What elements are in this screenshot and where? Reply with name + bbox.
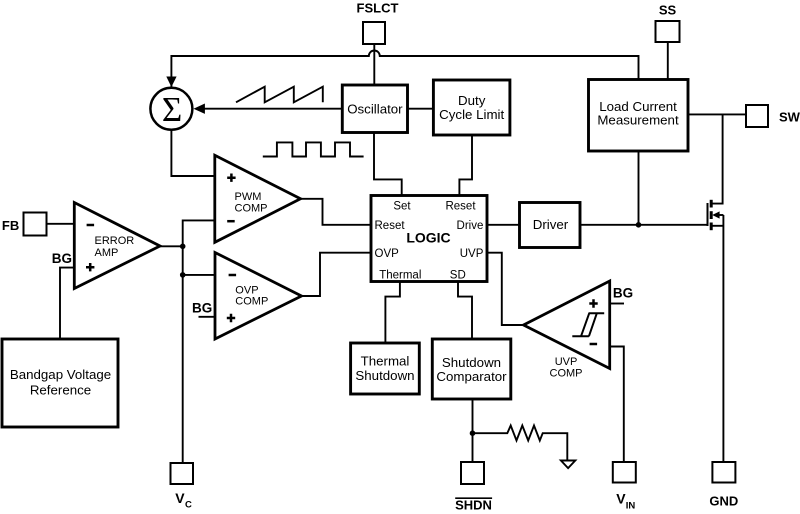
- MOSFET drain riser from SW wire: [711, 114, 723, 203]
- duty cycle limit box: [433, 80, 510, 135]
- svg-text:BG: BG: [52, 251, 72, 266]
- pad SS: [656, 21, 680, 42]
- wire LOGIC SD to shutdown comparator: [458, 282, 472, 340]
- wire sigma output to PWM + input: [171, 130, 214, 176]
- svg-text:Set: Set: [393, 200, 411, 212]
- svg-text:COMP: COMP: [550, 368, 583, 380]
- junction drive node: [636, 222, 642, 228]
- thermal shutdown box: [351, 343, 420, 394]
- svg-text:FB: FB: [2, 218, 19, 233]
- wire FSLCT to oscillator: [373, 44, 375, 85]
- svg-text:Duty: Duty: [458, 93, 486, 108]
- svg-text:BG: BG: [192, 301, 212, 316]
- square waveform: [263, 142, 364, 156]
- wire LOGIC UVP to UVP COMP output: [487, 253, 524, 325]
- svg-text:Shutdown: Shutdown: [355, 368, 414, 383]
- wire OVP COMP output to LOGIC OVP: [302, 253, 372, 296]
- junction OVP branch: [180, 272, 186, 278]
- pad FB: [24, 213, 47, 236]
- transistor Q1 power MOSFET: [708, 200, 724, 230]
- driver box: [520, 203, 581, 248]
- wire UVP + input stub: [610, 303, 624, 305]
- wire shutdown comparator to SHDN pad: [472, 399, 474, 462]
- op-amp ERROR AMP: [74, 203, 160, 289]
- pad GND: [712, 462, 735, 483]
- wire PWM COMP output to LOGIC Reset: [301, 199, 372, 225]
- svg-text:BG: BG: [613, 285, 633, 300]
- svg-text:Drive: Drive: [457, 220, 484, 232]
- logic box: [371, 196, 487, 282]
- resistor to ground: [473, 426, 568, 461]
- svg-text:Thermal: Thermal: [379, 270, 421, 282]
- svg-text:Measurement: Measurement: [597, 113, 679, 128]
- svg-text:Reference: Reference: [30, 383, 91, 398]
- svg-text:Driver: Driver: [533, 217, 569, 232]
- svg-text:V: V: [616, 491, 626, 507]
- svg-text:Reset: Reset: [375, 220, 406, 232]
- junction SHDN node: [470, 430, 476, 436]
- wire LOGIC Drive to driver: [487, 224, 520, 226]
- svg-text:SD: SD: [450, 270, 466, 282]
- wire LCM to SW pad: [688, 113, 746, 115]
- op-amp OVP COMP: [215, 253, 302, 340]
- svg-text:Cycle Limit: Cycle Limit: [439, 107, 504, 122]
- svg-text:SS: SS: [659, 3, 677, 18]
- wire SS to load current measurement: [667, 42, 669, 80]
- oscillator box: [342, 85, 407, 133]
- svg-text:COMP: COMP: [235, 295, 268, 307]
- svg-text:Thermal: Thermal: [361, 353, 410, 368]
- wire VC to OVP - input: [183, 274, 215, 276]
- svg-text:IN: IN: [626, 501, 636, 512]
- wire oscillator output to sigma with arrowhead: [204, 108, 342, 110]
- sawtooth waveform: [236, 87, 323, 103]
- wire BG stub to OVP +: [199, 316, 216, 318]
- wire LOGIC Thermal to thermal shutdown: [385, 282, 400, 344]
- svg-text:UVP: UVP: [460, 248, 484, 260]
- load current measurement box: [589, 80, 689, 152]
- summing node sigma: [150, 88, 192, 130]
- pad SW: [746, 105, 768, 127]
- op-amp PWM COMP: [215, 155, 301, 242]
- wire UVP - input to VIN: [610, 347, 624, 463]
- wire oscillator to duty cycle limit: [408, 108, 434, 110]
- wire oscillator to LOGIC Set: [374, 133, 402, 197]
- wire bandgap to error amp +: [60, 268, 74, 339]
- pad VIN: [613, 462, 636, 483]
- svg-text:COMP: COMP: [235, 202, 268, 214]
- comparator UVP COMP: [524, 281, 610, 369]
- svg-text:Reset: Reset: [445, 200, 476, 212]
- pad FSLCT: [363, 22, 385, 44]
- svg-text:V: V: [175, 490, 185, 506]
- svg-text:C: C: [185, 500, 192, 511]
- arrowhead into sigma top: [166, 77, 176, 88]
- shutdown comparator box: [432, 339, 511, 399]
- svg-text:Comparator: Comparator: [436, 369, 507, 384]
- svg-text:ERROR: ERROR: [95, 235, 135, 247]
- wire duty cycle limit to LOGIC Reset: [459, 135, 472, 196]
- wire LCM bottom to drive node: [638, 151, 640, 225]
- wire FB to error amp: [47, 223, 75, 225]
- node VC vertical line: [183, 220, 215, 463]
- svg-text:Oscillator: Oscillator: [347, 102, 403, 117]
- svg-text:OVP: OVP: [375, 248, 400, 260]
- pad SHDN: [461, 462, 484, 484]
- svg-text:GND: GND: [709, 493, 738, 508]
- svg-text:AMP: AMP: [95, 247, 119, 259]
- wire feedback top horizontal with hop over FSLCT wire: [171, 51, 638, 89]
- svg-text:Σ: Σ: [162, 90, 182, 129]
- hysteresis symbol: [572, 313, 604, 336]
- svg-text:LOGIC: LOGIC: [406, 229, 450, 245]
- ground: [561, 461, 575, 469]
- pad VC: [171, 463, 194, 484]
- bandgap voltage reference box: [2, 339, 118, 427]
- svg-text:Shutdown: Shutdown: [442, 355, 501, 370]
- wire error amp output: [160, 245, 183, 247]
- wire driver to MOSFET gate: [580, 224, 708, 226]
- svg-text:FSLCT: FSLCT: [357, 1, 399, 16]
- wire MOSFET source to GND pad: [722, 215, 724, 462]
- svg-text:UVP: UVP: [555, 356, 578, 368]
- svg-text:SHDN: SHDN: [455, 497, 492, 512]
- junction error amp output: [180, 244, 186, 250]
- svg-text:PWM: PWM: [235, 191, 262, 203]
- svg-text:SW: SW: [779, 109, 800, 124]
- svg-text:Bandgap Voltage: Bandgap Voltage: [10, 367, 111, 382]
